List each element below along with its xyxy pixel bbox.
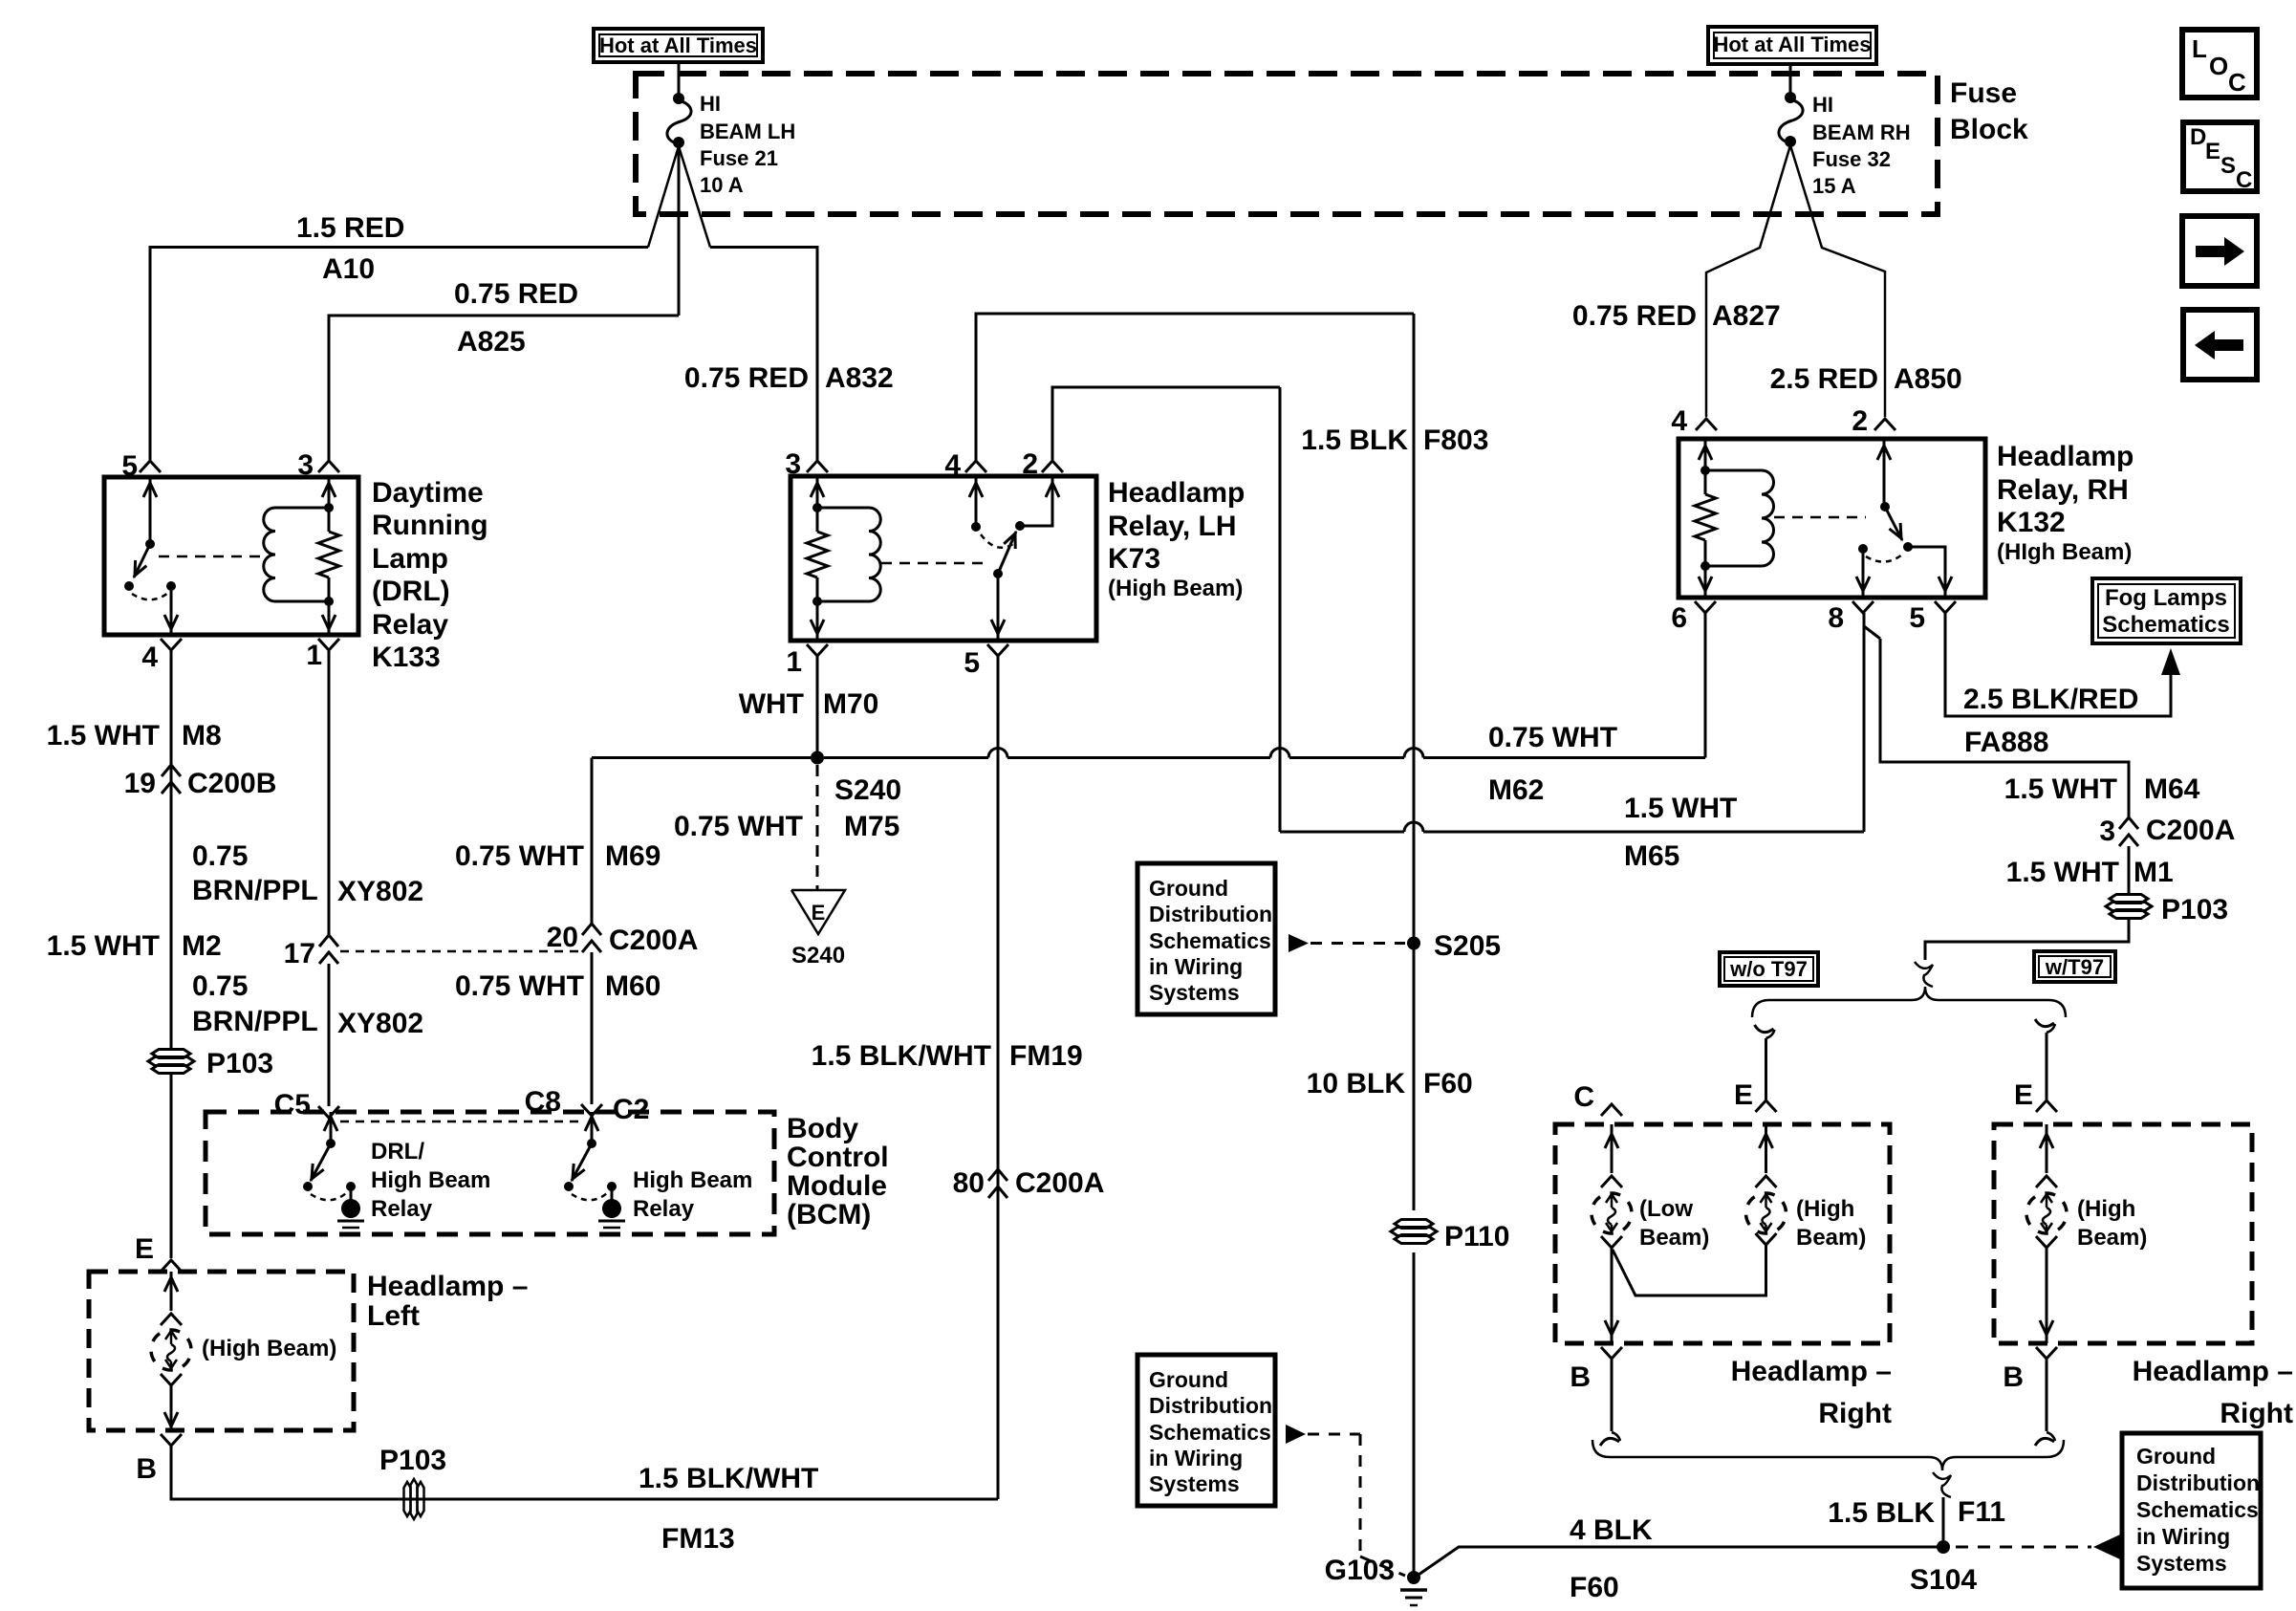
relay K73 pin 1 connector (807, 644, 828, 656)
callout box Ground Distribution Schematics (upper) (1137, 863, 1275, 1014)
wire M2 to headlamp left E (170, 1074, 173, 1258)
option label box w/o T97 (1720, 952, 1818, 986)
pass-through grommet P103 (left) (152, 1050, 190, 1058)
svg-text:C200A: C200A (2146, 815, 2235, 846)
callout arrow to G103 (1286, 1425, 1306, 1444)
svg-text:1.5 BLK/WHT: 1.5 BLK/WHT (639, 1463, 818, 1494)
wire B (right 2) to ground brace (2046, 1359, 2048, 1431)
svg-text:M60: M60 (605, 970, 661, 1002)
relay K73 pin 3 connector (807, 461, 828, 472)
svg-text:Relay, LH: Relay, LH (1108, 511, 1237, 542)
svg-text:BRN/PPL: BRN/PPL (192, 1006, 318, 1037)
svg-text:8: 8 (1828, 602, 1844, 634)
wire: fuse 32 right leg (A850) (1790, 145, 1885, 417)
wire E (w/T97) to headlamp right 2 (2046, 1033, 2048, 1099)
callout box Ground Distribution Schematics (lower) (1137, 1355, 1275, 1506)
pass-through grommet P103 (bottom) (404, 1482, 411, 1516)
svg-text:E: E (135, 1233, 154, 1265)
svg-text:Headlamp –: Headlamp – (2133, 1356, 2293, 1387)
svg-text:L: L (2192, 34, 2207, 63)
relay K132 switch left contact to pin 8 (1862, 549, 1865, 598)
pass-through grommet P103 (right) (2110, 895, 2148, 903)
svg-text:20: 20 (547, 922, 578, 953)
svg-text:5: 5 (1909, 602, 1925, 634)
BCM pin C8/C2 connector (581, 1104, 602, 1116)
headlamp right 1 low-beam bulb (1611, 1124, 1614, 1173)
wire M1 below P103 to branch brace (1925, 917, 2129, 960)
svg-text:P103: P103 (379, 1445, 446, 1476)
wire M75 (0.75 WHT) dashed to ground point (816, 765, 819, 890)
splice S104 (1937, 1540, 1950, 1554)
svg-text:0.75 WHT: 0.75 WHT (1488, 722, 1617, 753)
svg-text:DRL/: DRL/ (371, 1139, 424, 1165)
wire: Hot at All Times (right) to Fuse 32 (1789, 64, 1792, 95)
relay K133 box (Daytime Running Lamp Relay) (104, 477, 358, 635)
svg-text:4 BLK: 4 BLK (1570, 1514, 1653, 1546)
svg-text:E: E (2014, 1079, 2033, 1111)
option label box w/T97 (2034, 951, 2115, 982)
svg-text:Schematics: Schematics (1149, 1420, 1271, 1445)
relay K132 switch contact dot right (1903, 542, 1913, 552)
relay K132 pin 6 connector (1695, 601, 1716, 613)
svg-text:Ground: Ground (1149, 876, 1228, 901)
svg-text:C: C (2236, 167, 2252, 193)
svg-text:M2: M2 (182, 930, 222, 962)
svg-text:1.5 RED: 1.5 RED (296, 212, 404, 244)
svg-text:(High: (High (1796, 1196, 1854, 1222)
splice S240 (811, 751, 824, 765)
svg-text:0.75 WHT: 0.75 WHT (455, 970, 584, 1002)
relay K73 switch contact dot (993, 569, 1003, 578)
headlamp right 2 pin B connector (2036, 1347, 2057, 1359)
wire-resume squiggle (top) (1915, 962, 1933, 987)
relay K73 switch to pin 2 (1020, 476, 1052, 526)
svg-text:Distribution: Distribution (2136, 1470, 2260, 1495)
wire E (w/T97) hook (2035, 1019, 2054, 1027)
svg-text:1: 1 (306, 640, 322, 671)
svg-text:S104: S104 (1910, 1564, 1977, 1596)
svg-text:(BCM): (BCM) (787, 1199, 871, 1230)
svg-text:4: 4 (1671, 405, 1687, 437)
headlamp left high-beam bulb (170, 1272, 173, 1311)
wire A832 (0.75 RED) fuse21 to K73 pin 3 (710, 248, 817, 461)
wire E (w/o T97) to headlamp right 1 (1765, 1038, 1767, 1099)
svg-text:Beam): Beam) (1639, 1225, 1709, 1251)
splice S205 (1407, 937, 1420, 950)
relay K132 coil loop (1705, 469, 1762, 472)
wire from K73 pin 2 up and over (1052, 387, 1280, 460)
svg-text:K132: K132 (1997, 507, 2066, 538)
legend icon box DESC (2183, 122, 2257, 191)
wire F60 (4 BLK) G103 to S104 (1419, 1547, 1943, 1575)
svg-text:Headlamp: Headlamp (1108, 477, 1245, 509)
headlamp right 1 pin B connector (1601, 1347, 1622, 1359)
relay K133 coil-resistor main line pin3-pin1 (328, 477, 331, 532)
svg-text:A825: A825 (457, 326, 526, 358)
wire F11 (1.5 BLK) brace to S104 (1942, 1497, 1945, 1540)
relay K133 pin 3 connector (318, 461, 339, 472)
svg-text:B: B (136, 1453, 157, 1485)
wire from K73 pin 4 up and over to F60 line (976, 314, 1414, 460)
headlamp right 2 high-beam bulb (2046, 1124, 2048, 1173)
svg-text:Right: Right (2220, 1398, 2293, 1429)
connector C200A pin 3 inline (2119, 817, 2138, 829)
svg-text:FM13: FM13 (661, 1523, 735, 1555)
relay K132 switch output to pin 5 (1908, 547, 1945, 598)
fuse F32 (HI BEAM RH Fuse 32 15 A) (1785, 92, 1796, 103)
svg-text:O: O (2209, 52, 2228, 80)
svg-text:Relay: Relay (371, 1196, 433, 1222)
svg-text:Systems: Systems (1149, 1471, 1240, 1496)
dashed wire callout to G103 (1308, 1433, 1360, 1436)
svg-text:Headlamp: Headlamp (1997, 441, 2134, 472)
svg-text:High Beam: High Beam (633, 1167, 752, 1193)
wire M70 (WHT) K73 pin1 to splice S240 (816, 656, 819, 757)
relay K73 pin 4 connector (965, 461, 986, 472)
wire: fuse 21 center down to A825 (678, 146, 681, 316)
svg-text:Module: Module (787, 1170, 887, 1202)
svg-text:XY802: XY802 (337, 876, 423, 907)
svg-text:WHT: WHT (739, 688, 804, 720)
wire M1 (1.5 WHT) to P103 (2128, 846, 2131, 896)
relay K132 coil branch dots (1700, 466, 1710, 475)
relay K73 switch dashed arc (981, 534, 1013, 548)
svg-text:Control: Control (787, 1142, 889, 1173)
svg-text:Systems: Systems (1149, 980, 1240, 1005)
svg-text:2.5 BLK/RED: 2.5 BLK/RED (1963, 684, 2138, 715)
relay K133 switch contact dot left (124, 581, 134, 591)
ground G103 (1407, 1571, 1420, 1584)
fuse block dashed boundary (636, 74, 1938, 214)
wire-resume squiggle (bottom) (1933, 1472, 1951, 1497)
svg-text:M65: M65 (1624, 840, 1679, 872)
svg-text:E: E (1734, 1079, 1753, 1111)
svg-text:Fuse 32: Fuse 32 (1812, 147, 1891, 171)
svg-text:10 BLK: 10 BLK (1307, 1068, 1406, 1099)
connector C200A pin 80 inline (988, 1169, 1007, 1181)
relay K133 coil loop (275, 507, 329, 510)
svg-text:Ground: Ground (2136, 1444, 2216, 1469)
wire M62 (0.75 WHT) S240 to K132 pin 6 (824, 756, 988, 759)
svg-text:(High Beam): (High Beam) (202, 1336, 336, 1361)
wire F60 below S205 (1413, 949, 1416, 1210)
wire FA888 (2.5 BLK/RED) K132 pin5 to fog lamps (1945, 613, 2171, 716)
wire M64 branch jog (1864, 626, 1880, 639)
svg-text:A832: A832 (825, 362, 894, 394)
svg-text:Relay, RH: Relay, RH (1997, 474, 2129, 506)
relay K132 resistor (1695, 494, 1716, 540)
relay K133 switch common from pin 5 (149, 477, 152, 544)
svg-text:Hot at All Times: Hot at All Times (599, 33, 757, 57)
svg-text:HI: HI (1812, 93, 1833, 117)
svg-text:F803: F803 (1423, 425, 1488, 456)
svg-text:0.75: 0.75 (192, 840, 248, 872)
callout arrow to S205 (1289, 934, 1309, 952)
power label box: Hot at All Times (left) (594, 29, 763, 62)
headlamp left pin B connector (161, 1434, 182, 1446)
relay K132 box (Headlamp Relay RH) (1679, 439, 1985, 598)
svg-text:0.75 WHT: 0.75 WHT (455, 840, 584, 872)
power label box: Hot at All Times (right) (1708, 27, 1876, 64)
relay K73 pin 4 internal line (975, 476, 978, 527)
svg-text:M70: M70 (823, 688, 878, 720)
svg-text:S: S (2220, 153, 2236, 179)
svg-text:0.75 RED: 0.75 RED (684, 362, 809, 394)
relay K133 pin 4 connector (161, 639, 182, 650)
relay K133 switch output to pin 4 (170, 586, 173, 635)
svg-text:Hot at All Times: Hot at All Times (1713, 33, 1871, 56)
relay K73 coil branch dots (812, 503, 822, 512)
svg-text:A850: A850 (1894, 363, 1962, 395)
svg-text:HI: HI (700, 92, 721, 116)
svg-text:4: 4 (141, 642, 158, 673)
ground point S240 (E triangle) (791, 890, 845, 934)
svg-text:P103: P103 (2161, 894, 2228, 925)
headlamp right 1 pin E connector (1756, 1100, 1777, 1112)
svg-text:3: 3 (2099, 816, 2115, 847)
wire A10 (1.5 RED) fuse21 to DRL relay pin 5 (150, 248, 648, 461)
relay K132 pin 8 connector (1852, 601, 1874, 613)
relay K132 coil (1762, 470, 1774, 566)
wire F60 below P110 to G103 (1413, 1252, 1416, 1578)
svg-text:Fuse 21: Fuse 21 (700, 146, 778, 170)
branch brace (splits to w/o T97 and w/T97) (1752, 987, 2066, 1017)
relay K73 coil loop (817, 507, 869, 510)
svg-text:Relay: Relay (633, 1196, 695, 1222)
svg-text:0.75 RED: 0.75 RED (454, 278, 578, 310)
svg-text:17: 17 (284, 938, 315, 969)
svg-text:in Wiring: in Wiring (2136, 1524, 2230, 1549)
svg-text:P110: P110 (1444, 1221, 1509, 1252)
Headlamp-Left dashed box (89, 1272, 354, 1430)
svg-text:2: 2 (1852, 405, 1868, 437)
headlamp left pin E connector (161, 1260, 182, 1272)
svg-text:Block: Block (1950, 114, 2028, 145)
legend icon box back arrow (2183, 310, 2257, 380)
dashed wire S104 to callout (1956, 1546, 2091, 1549)
svg-text:80: 80 (953, 1167, 985, 1199)
wire XY802 (0.75 BRN/PPL) from K133 pin 1 (328, 650, 331, 935)
relay K133 actuator dashed link (159, 555, 264, 558)
relay K73 switch arm (998, 532, 1016, 574)
relay K133 pin 5 connector (140, 461, 161, 472)
svg-text:A827: A827 (1712, 300, 1781, 332)
Headlamp-Right 1 dashed box (1555, 1124, 1890, 1343)
svg-text:Schematics: Schematics (1149, 928, 1271, 953)
relay K73 box (Headlamp Relay LH) (791, 476, 1096, 641)
svg-text:S240: S240 (834, 774, 901, 806)
svg-text:FM19: FM19 (1009, 1040, 1083, 1072)
svg-text:(DRL): (DRL) (372, 576, 450, 607)
svg-text:C: C (1573, 1081, 1594, 1113)
svg-text:S240: S240 (791, 943, 845, 969)
svg-text:Ground: Ground (1149, 1367, 1228, 1392)
wire: fuse 21 left leg to A10 (648, 146, 679, 248)
legend icon box LOC (2182, 30, 2257, 98)
relay K132 pin 4 connector (1696, 419, 1717, 430)
svg-text:D: D (2190, 124, 2206, 150)
svg-text:Beam): Beam) (1796, 1225, 1866, 1251)
svg-text:BRN/PPL: BRN/PPL (192, 875, 318, 906)
dashed wire callout to S205 (1310, 942, 1405, 945)
relay K73 switch arm top dot (1015, 521, 1025, 531)
svg-text:M75: M75 (844, 811, 899, 842)
svg-text:(HIgh Beam): (HIgh Beam) (1997, 539, 2132, 565)
svg-text:(High: (High (2077, 1196, 2135, 1222)
relay K73 resistor (807, 532, 828, 577)
relay K73 switch output to pin 5 (997, 574, 1000, 641)
svg-text:19: 19 (124, 768, 156, 799)
relay K132 pin 2 connector (1874, 419, 1895, 430)
relay K132 coil-resistor main line pin4-pin6 (1704, 439, 1707, 494)
wire B (right 1) to ground brace (1611, 1359, 1614, 1431)
svg-text:BEAM LH: BEAM LH (700, 120, 795, 143)
wire F803 segment down (1279, 387, 1282, 832)
connector C200A pin 20 inline (582, 924, 601, 935)
wire M8 (1.5 WHT) from K133 pin 4 (170, 650, 173, 1049)
svg-text:FA888: FA888 (1964, 727, 2048, 758)
connector C200B pin 19 inline (162, 765, 181, 776)
svg-text:F60: F60 (1423, 1068, 1473, 1099)
connector C200A pin 17 inline (319, 935, 338, 947)
svg-text:Fog Lamps: Fog Lamps (2105, 585, 2227, 611)
relay K132 switch arm (1885, 507, 1902, 540)
svg-text:A10: A10 (322, 253, 375, 285)
wire FM19 (1.5 BLK/WHT) K73 pin 5 down to FM13 (997, 656, 1000, 1499)
svg-text:C200A: C200A (1015, 1167, 1104, 1199)
wire: fuse 21 right leg to A832 (679, 146, 710, 248)
Headlamp-Right 2 dashed box (1994, 1124, 2252, 1343)
svg-text:BEAM RH: BEAM RH (1812, 120, 1911, 144)
svg-text:M62: M62 (1488, 774, 1544, 806)
svg-text:Lamp: Lamp (372, 543, 448, 575)
svg-text:XY802: XY802 (337, 1008, 423, 1039)
svg-text:Systems: Systems (2136, 1551, 2227, 1576)
svg-text:M64: M64 (2144, 773, 2200, 805)
svg-text:Headlamp –: Headlamp – (367, 1271, 528, 1302)
svg-text:w/o T97: w/o T97 (1729, 957, 1808, 981)
svg-text:(High Beam): (High Beam) (1108, 576, 1243, 601)
svg-text:C: C (2228, 68, 2246, 97)
wire M65 (1.5 WHT) to K132 pin 8 (1280, 831, 1404, 834)
ground brace (joins both headlamp right B wires) (1592, 1440, 2064, 1470)
wire from K132 pin 8 to M65 (1863, 613, 1866, 832)
svg-text:Relay: Relay (372, 609, 448, 641)
wire E (w/o T97) hook (1755, 1025, 1774, 1033)
relay K133 resistor (318, 532, 339, 577)
svg-text:1.5 WHT: 1.5 WHT (1624, 793, 1737, 824)
svg-text:0.75: 0.75 (192, 970, 248, 1002)
svg-text:M69: M69 (605, 840, 661, 872)
wire F60 (10 BLK) vertical (1413, 314, 1416, 937)
wire M62 left segment S240 to M69 drop (592, 756, 811, 759)
svg-text:P103: P103 (206, 1048, 273, 1079)
headlamp right 1 pin C connector (1601, 1104, 1622, 1116)
svg-text:F60: F60 (1570, 1572, 1619, 1603)
wire M69 (0.75 WHT) S240 feed down (591, 758, 594, 925)
svg-text:High Beam: High Beam (371, 1167, 490, 1193)
svg-text:w/T97: w/T97 (2045, 955, 2104, 979)
relay K132 switch common from pin 2 (1883, 439, 1886, 507)
connector C200A row dashed line (340, 950, 579, 953)
svg-text:10 A: 10 A (700, 173, 744, 197)
relay K73 pin 5 connector (987, 644, 1008, 656)
relay K132 actuator dashed link (1774, 516, 1866, 519)
relay K133 switch dashed arc (132, 593, 168, 599)
Body Control Module dashed box (206, 1112, 774, 1234)
svg-text:K133: K133 (372, 642, 441, 673)
wire M60 (0.75 WHT) to BCM C2 (591, 952, 594, 1104)
legend icon box forward arrow (2182, 216, 2257, 286)
svg-text:E: E (812, 901, 826, 925)
headlamp right 1 high-beam bulb (1765, 1124, 1767, 1173)
relay K133 coil branch dots (324, 503, 334, 512)
svg-text:Distribution: Distribution (1149, 1393, 1272, 1418)
BCM pin C5 connector (318, 1106, 339, 1118)
headlamp right 2 pin E connector (2036, 1100, 2057, 1112)
svg-text:1.5 WHT: 1.5 WHT (2006, 857, 2119, 888)
relay K132 pin 5 connector (1935, 601, 1956, 613)
pass-through grommet P110 (1395, 1220, 1433, 1229)
relay K133 switch pivot dot (145, 539, 155, 549)
svg-text:Daytime: Daytime (372, 477, 484, 509)
svg-text:in Wiring: in Wiring (1149, 954, 1243, 979)
svg-text:C5: C5 (274, 1089, 311, 1121)
wire: fuse 32 left leg (A827) (1706, 145, 1790, 417)
relay K73 pin 2 connector (1042, 461, 1063, 472)
svg-text:Body: Body (787, 1113, 858, 1144)
svg-text:1.5 WHT: 1.5 WHT (2004, 773, 2117, 805)
wire: Hot at All Times (left) to Fuse 21 (678, 62, 681, 96)
svg-text:Distribution: Distribution (1149, 902, 1272, 926)
wire A825 (0.75 RED) fuse21 to DRL relay pin 3 (329, 316, 679, 460)
svg-text:M1: M1 (2134, 857, 2174, 888)
svg-text:1.5 WHT: 1.5 WHT (47, 930, 160, 962)
svg-text:Running: Running (372, 510, 488, 541)
relay K133 switch arm (134, 544, 150, 577)
svg-text:Right: Right (1818, 1398, 1892, 1429)
svg-text:1.5 BLK: 1.5 BLK (1301, 425, 1408, 456)
svg-text:in Wiring: in Wiring (1149, 1446, 1243, 1470)
svg-text:2.5 RED: 2.5 RED (1770, 363, 1878, 395)
BCM DRL/High Beam relay driver switch (330, 1112, 333, 1143)
svg-text:0.75 WHT: 0.75 WHT (674, 811, 803, 842)
svg-text:1.5 BLK: 1.5 BLK (1828, 1497, 1935, 1529)
svg-text:1: 1 (786, 646, 802, 678)
svg-text:Headlamp –: Headlamp – (1731, 1356, 1892, 1387)
wire from K132 pin 6 to M62 (1704, 613, 1707, 758)
relay K133 coil (264, 508, 275, 601)
relay K132 switch dashed arc (1866, 555, 1902, 562)
callout arrow from S104 (2093, 1535, 2120, 1559)
svg-text:S205: S205 (1434, 930, 1501, 962)
svg-text:F11: F11 (1958, 1496, 2005, 1528)
svg-text:C200A: C200A (609, 925, 698, 956)
svg-text:1.5 WHT: 1.5 WHT (47, 720, 160, 751)
relay K73 coil (869, 508, 880, 601)
wire FM13 (1.5 BLK/WHT) headlamp left B to FM19 (171, 1446, 998, 1499)
svg-text:G103: G103 (1325, 1555, 1395, 1586)
callout box Ground Distribution Schematics (bottom right) (2122, 1433, 2261, 1588)
wire M64 (1.5 WHT) down and over (1880, 639, 2129, 817)
svg-text:M8: M8 (182, 720, 222, 751)
svg-text:Fuse: Fuse (1950, 77, 2017, 109)
relay K133 pin 1 connector (318, 639, 339, 650)
svg-text:Left: Left (367, 1300, 420, 1332)
relay K132 switch pivot dot (1880, 502, 1890, 512)
svg-text:Beam): Beam) (2077, 1225, 2147, 1251)
BCM connector row dashed line (340, 1121, 580, 1123)
